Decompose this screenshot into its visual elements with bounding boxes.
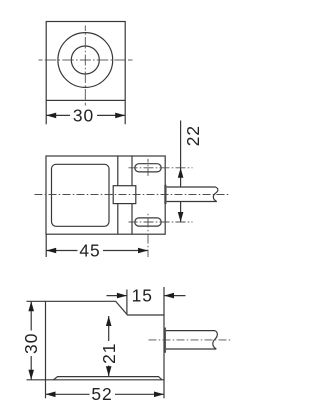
svg-text:15: 15: [132, 285, 153, 305]
svg-text:22: 22: [183, 125, 203, 146]
svg-text:30: 30: [21, 333, 41, 354]
svg-text:45: 45: [79, 240, 100, 260]
svg-text:52: 52: [91, 384, 112, 404]
svg-text:21: 21: [99, 343, 119, 364]
svg-text:30: 30: [73, 105, 94, 125]
